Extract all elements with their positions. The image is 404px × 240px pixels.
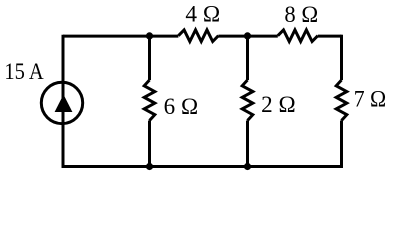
wire top rail right segment [318, 35, 342, 38]
wire top rail middle segment [218, 35, 277, 38]
svg-text:6 Ω: 6 Ω [164, 94, 199, 119]
current source I1 circle [41, 82, 82, 123]
label 7 Ω [354, 86, 387, 111]
wire 6-ohm branch upper pin [148, 36, 151, 80]
junction node bottom B [244, 163, 251, 170]
wire right rail lower pin [340, 121, 343, 168]
resistor R1 4Ω [178, 30, 218, 42]
resistor R4 2Ω [242, 80, 253, 121]
svg-text:15 A: 15 A [4, 59, 44, 84]
current source I1 arrow [55, 95, 73, 113]
svg-text:4 Ω: 4 Ω [185, 1, 220, 26]
wire 6-ohm branch lower pin [148, 121, 151, 167]
label 15 A [4, 59, 44, 84]
junction node top B [244, 32, 251, 39]
junction node top A [146, 32, 153, 39]
resistor R2 8Ω [278, 30, 318, 42]
svg-text:7 Ω: 7 Ω [354, 86, 387, 111]
label 8 Ω [284, 2, 318, 27]
wire left rail [62, 35, 65, 168]
svg-text:8 Ω: 8 Ω [284, 2, 318, 27]
wire top rail left segment [63, 35, 178, 38]
resistor R3 6Ω [144, 80, 155, 121]
label 6 Ω [164, 94, 199, 119]
resistor R5 7Ω [336, 80, 347, 121]
wire bottom rail [62, 165, 343, 168]
label 4 Ω [185, 1, 220, 26]
svg-text:2 Ω: 2 Ω [261, 92, 296, 117]
junction node bottom A [146, 163, 153, 170]
wire 2-ohm branch upper pin [246, 36, 249, 80]
wire right rail upper pin [340, 35, 343, 80]
wire 2-ohm branch lower pin [246, 121, 249, 167]
label 2 Ω [261, 92, 296, 117]
